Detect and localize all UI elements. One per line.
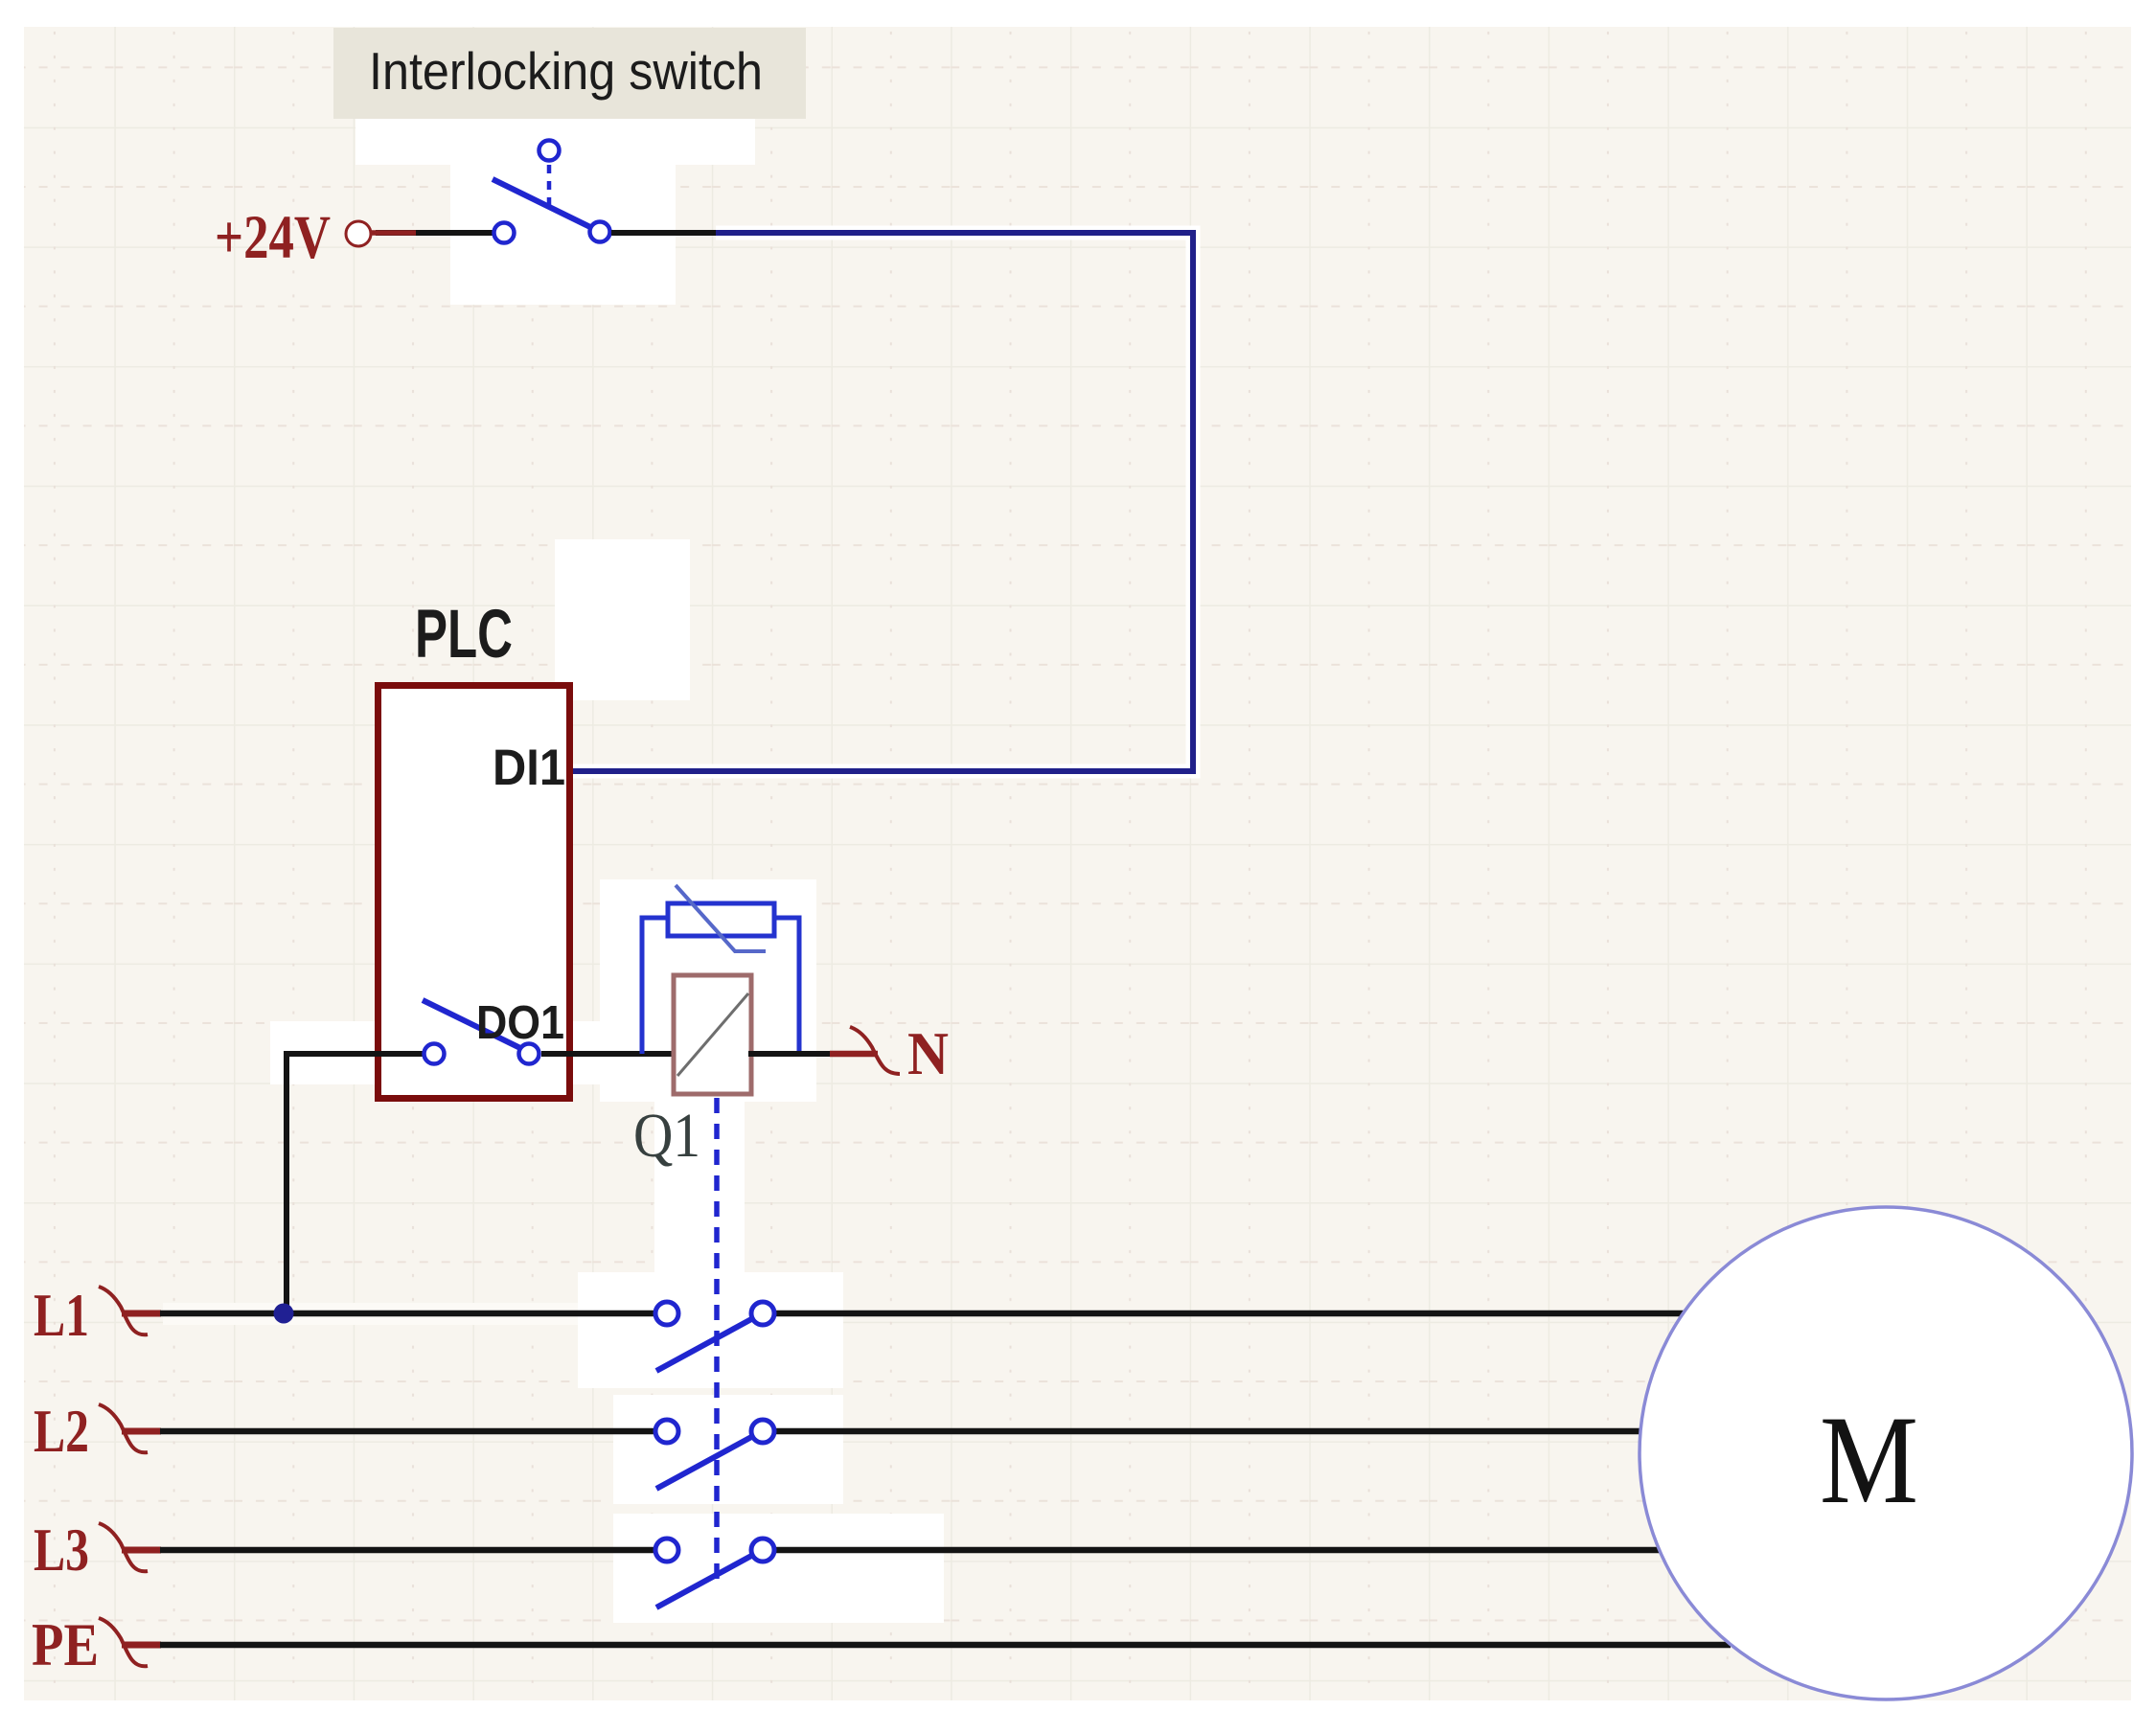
wire L1 (left of contact) xyxy=(160,1311,655,1317)
wire (red stub L3) xyxy=(122,1547,161,1554)
PLC U1 box xyxy=(378,686,570,1099)
wire PE xyxy=(160,1642,1731,1649)
contactor contact Q1-2 on L2 xyxy=(655,1420,774,1489)
svg-text:DO1: DO1 xyxy=(476,997,564,1049)
node L3 hook xyxy=(99,1523,148,1571)
wire L3 (right of contact) xyxy=(774,1547,1660,1554)
wire L1 (right of contact) xyxy=(774,1311,1684,1317)
svg-text:L2: L2 xyxy=(34,1398,89,1465)
svg-text:PE: PE xyxy=(32,1611,99,1678)
svg-text:Interlocking switch: Interlocking switch xyxy=(369,41,763,101)
svg-text:+24V: +24V xyxy=(215,203,331,272)
mechanical link (dashed) from Q1 to contacts xyxy=(714,1098,720,1588)
svg-text:N: N xyxy=(907,1020,949,1087)
wire (black, DO1 corner down to L1 junction) xyxy=(287,1054,423,1313)
wire L2 (left of contact) xyxy=(160,1428,655,1435)
node L2 hook xyxy=(99,1404,148,1452)
wire (red stub from +24V terminal) xyxy=(372,230,416,236)
terminal +24V xyxy=(346,221,371,246)
wire (red stub L1) xyxy=(122,1311,161,1317)
wire (black, DO1 to Q1 coil) xyxy=(541,1051,677,1057)
svg-text:L3: L3 xyxy=(34,1516,89,1584)
node N hook xyxy=(850,1027,900,1074)
switch DO1 (PLC output contact) xyxy=(423,1000,539,1064)
wire (red stub PE) xyxy=(122,1642,161,1649)
wire L3 (left of contact) xyxy=(160,1547,655,1554)
wire (red stub to N) xyxy=(830,1051,878,1058)
wire L2 (right of contact) xyxy=(774,1428,1640,1435)
label box: Interlocking switch xyxy=(333,28,806,119)
contactor contact Q1-1 on L1 xyxy=(655,1302,774,1371)
motor M1 xyxy=(1640,1207,2132,1699)
node PE hook xyxy=(99,1618,148,1666)
wire (black, Q1 to N) xyxy=(748,1051,837,1057)
varistor RV1 across Q1 coil xyxy=(642,885,799,1054)
contactor coil Q1 xyxy=(674,975,751,1094)
junction node on L1 xyxy=(274,1304,294,1324)
wire (black, +24V to switch) xyxy=(376,230,493,236)
wire (red stub L2) xyxy=(122,1428,161,1435)
svg-text:M: M xyxy=(1820,1389,1918,1530)
svg-text:PLC: PLC xyxy=(415,597,513,673)
switch S1 (interlocking switch) xyxy=(493,141,610,243)
svg-text:DI1: DI1 xyxy=(493,740,565,796)
svg-text:L1: L1 xyxy=(34,1282,89,1349)
wire (navy loop: switch to PLC DI1) xyxy=(571,233,1193,771)
node L1 hook xyxy=(99,1287,148,1334)
contactor contact Q1-3 on L3 xyxy=(655,1539,774,1608)
wire (black, switch to colour change) xyxy=(611,230,717,236)
svg-text:Q1: Q1 xyxy=(633,1101,700,1171)
